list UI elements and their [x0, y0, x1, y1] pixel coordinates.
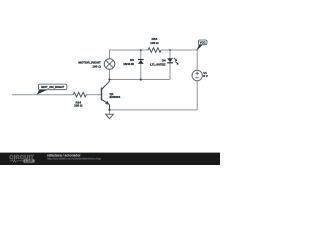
resistor R14 — [73, 92, 86, 97]
wire ground stem — [109, 110, 111, 114]
footer CircuitLab logo LAB — [23, 159, 34, 162]
svg-text:MOT_ON_RIGHT: MOT_ON_RIGHT — [41, 85, 64, 89]
footer bar — [0, 153, 220, 165]
wire top rail left segment — [110, 49, 149, 51]
resistor R16 — [148, 48, 161, 53]
svg-text:LAB: LAB — [25, 159, 33, 163]
wire motor bottom lead to collector — [109, 69, 111, 81]
wire motor top lead — [109, 50, 111, 59]
node emitter-ground junction — [108, 109, 110, 111]
svg-text:VCC: VCC — [200, 41, 207, 45]
svg-text:LTL-307EE: LTL-307EE — [150, 63, 166, 67]
VCC flag — [197, 40, 207, 51]
transistor Q1 emitter arrowhead — [105, 101, 109, 105]
wire top rail right segment to VCC corner and down to V1 — [161, 50, 197, 70]
node D3 bottom junction — [140, 78, 142, 80]
svg-text:100 Ω: 100 Ω — [150, 41, 159, 45]
svg-text:2N3904: 2N3904 — [110, 95, 121, 99]
wire R14 to Q1 base — [86, 94, 101, 96]
wire D4 branch vertical — [169, 50, 171, 80]
svg-text:http://circuitlab.com/c/tmsbml: http://circuitlab.com/c/tmsbmlwnbcbvx.bq… — [47, 156, 102, 160]
wire D3 branch vertical — [140, 50, 142, 80]
ground symbol — [106, 114, 114, 118]
diode D3 1N4148 — [138, 60, 144, 64]
motor MOTOR_RIGHT symbol — [104, 59, 115, 70]
wire emitter rail to V1 bottom — [110, 81, 198, 110]
node flag MOT_ON_RIGHT — [37, 84, 67, 95]
LED D4 LTL-307EE — [167, 58, 179, 65]
voltage source V1 — [192, 70, 202, 80]
node D4 top junction — [169, 49, 171, 51]
svg-text:1N4148: 1N4148 — [123, 62, 134, 66]
svg-text:100 Ω: 100 Ω — [74, 104, 83, 108]
wire base line from left to R14 — [12, 94, 73, 96]
node collector junction — [108, 78, 110, 80]
transistor Q1 2N3904 — [102, 81, 110, 110]
wire bottom parallel rail — [110, 79, 171, 81]
svg-text:100 Ω: 100 Ω — [92, 64, 101, 68]
node D3 top junction — [140, 49, 142, 51]
footer CircuitLab logo waveform — [10, 160, 23, 163]
